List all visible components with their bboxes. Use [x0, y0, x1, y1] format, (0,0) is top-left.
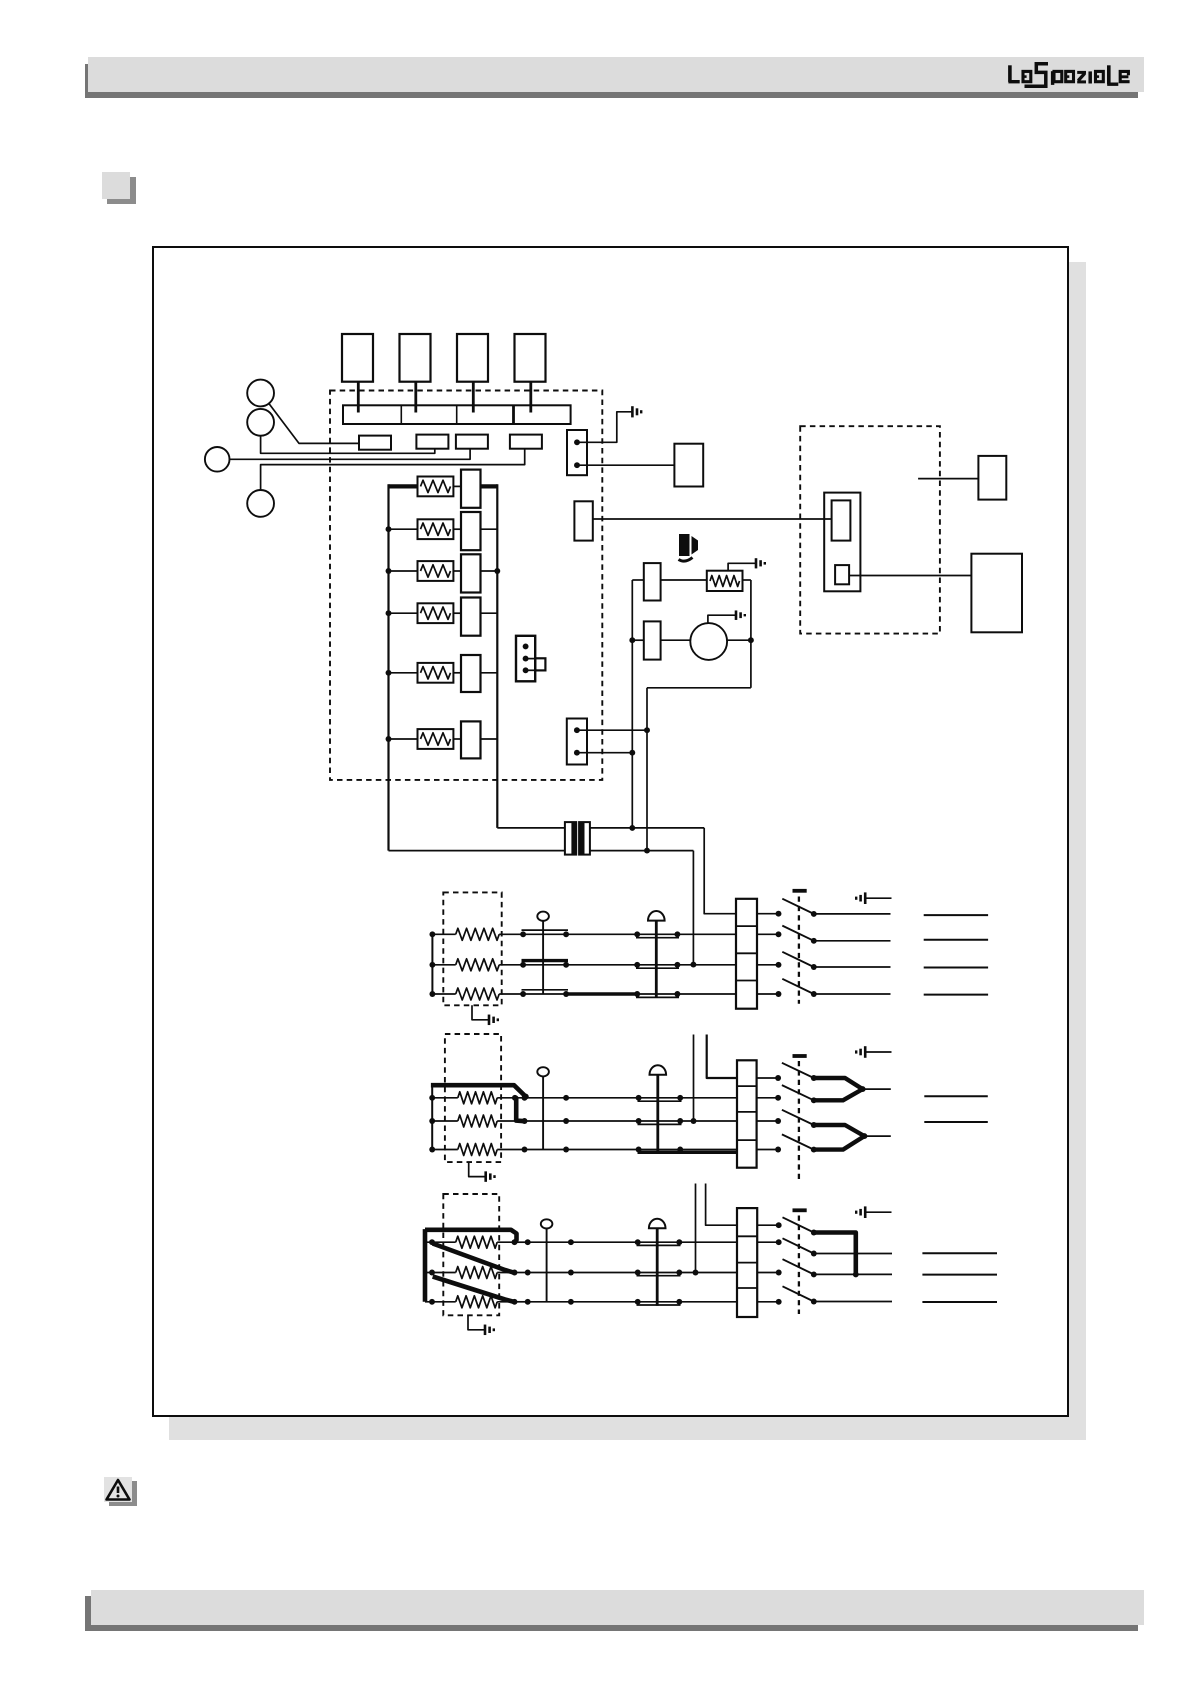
wire PB2 to J2 — [261, 436, 435, 454]
mechanical link 3 (dashed) — [798, 1216, 800, 1315]
wire row 2.1 — [525, 1097, 738, 1099]
wire PB3 to J3 — [230, 449, 471, 459]
heating element 1.1 — [432, 928, 523, 940]
connector node 2.3.1 — [522, 1147, 528, 1153]
wire row 2.2 — [525, 1120, 738, 1122]
chassis ground 1 — [856, 892, 891, 904]
connector node 3.3.2 — [525, 1299, 531, 1305]
wire SW4 stem — [529, 382, 532, 413]
bank bus node 5 — [386, 670, 392, 676]
wire row 2.3 — [525, 1149, 738, 1151]
switch output node 3.2 — [811, 1271, 817, 1277]
contactor terminal strip 2 — [737, 1060, 757, 1167]
switch input node 1.2 — [776, 962, 782, 968]
merge wires 2.1 (thick) — [814, 1078, 863, 1100]
transformer T1 — [565, 822, 590, 855]
wire left rail — [631, 580, 633, 828]
switch blade 3.1 — [783, 1238, 814, 1253]
node N1 — [629, 637, 635, 643]
safety thermostat B1 — [648, 911, 665, 998]
box TR — [978, 456, 1006, 500]
connector node 2.1.4 — [677, 1095, 683, 1101]
switch output node 2.1 — [811, 1097, 817, 1103]
heating element 1.2 — [432, 959, 523, 971]
bank 2 jumper (thick) — [431, 1085, 526, 1096]
CN2 pin 2 — [574, 750, 580, 756]
wire R2 to RL2 — [453, 528, 461, 530]
switch input node 2.0 — [775, 1075, 781, 1081]
link bar 3 — [793, 1208, 807, 1212]
wire node to RL7 — [632, 579, 644, 581]
connector node 1.3.3 — [634, 991, 640, 997]
CN3 shorting link — [526, 658, 546, 670]
connector node 3.2.1 — [512, 1270, 518, 1276]
box P1 — [574, 501, 592, 540]
heating element 2.2 — [432, 1115, 524, 1127]
connector node 3.1.3 — [568, 1239, 574, 1245]
load wire 1.4 — [924, 994, 988, 996]
bank 3 bus node 1 — [429, 1239, 435, 1245]
push-button PB3 — [205, 447, 230, 472]
bank 2 bus node 1 — [429, 1095, 435, 1101]
connector node 2.3.4 — [677, 1147, 683, 1153]
connector node 2.1.2 — [563, 1095, 569, 1101]
link bar 1 — [793, 889, 807, 893]
strip out wire 2.2 — [757, 1120, 779, 1122]
right bank bus — [496, 484, 498, 828]
switch out wire 1.3 — [814, 993, 891, 995]
merge node 2.1 — [860, 1086, 866, 1092]
wire CN2-1 — [578, 729, 647, 731]
wire PB1 to J1 — [269, 404, 359, 444]
switch input node 3.0 — [776, 1222, 782, 1228]
connector node 1.3.1 — [520, 991, 526, 997]
load wire 2.1 — [924, 1095, 988, 1097]
wire P1 to contactor coil — [593, 518, 832, 520]
heater bank 1 bus — [431, 934, 433, 994]
strip out wire 3.3 — [757, 1301, 779, 1303]
wire RL8 to motor — [661, 639, 691, 641]
node N4 — [748, 637, 754, 643]
switch blade 2.1 — [782, 1085, 814, 1100]
wire feed L2 group1 — [692, 851, 694, 965]
wire row 1.2 — [523, 964, 736, 966]
switch output node 2.3 — [811, 1147, 817, 1153]
wire RL7 to R7 — [661, 579, 707, 581]
bridge link 3.3 — [637, 1304, 681, 1306]
row A link (thick) 3 — [814, 1233, 856, 1275]
wire bus to R3 — [389, 570, 418, 572]
connector node 3.3.5 — [676, 1299, 682, 1305]
relay coil RL8 — [644, 621, 661, 659]
wire RL3 to right bus — [481, 570, 498, 572]
connector node 1.1.2 — [563, 931, 569, 937]
contactor terminal strip 3 — [737, 1208, 757, 1317]
wire row 3.3 — [515, 1301, 738, 1303]
switch output node 2.0 — [811, 1075, 817, 1081]
wire row 1.3 — [523, 993, 736, 995]
wire row 1.1 — [523, 933, 736, 935]
mechanical link 2 (dashed) — [798, 1061, 800, 1180]
switch blade 3.2 — [783, 1259, 814, 1274]
load wire 1.3 — [924, 967, 988, 969]
connector node 1.2.4 — [674, 962, 680, 968]
bank 2 link R1-R2 (thick) — [515, 1098, 525, 1121]
switch input node 1.3 — [776, 991, 782, 997]
wire row 3.1 — [515, 1241, 738, 1243]
strip out wire 2.3 — [757, 1149, 779, 1151]
bank bus node 2 — [386, 526, 392, 532]
switch out wire 3.3 — [814, 1301, 892, 1303]
connector node 3.1.1 — [512, 1239, 518, 1245]
connector node 3.2.3 — [568, 1270, 574, 1276]
header bar shadow — [85, 64, 1139, 98]
connector node 2.3.2 — [563, 1147, 569, 1153]
bank 2 jumper node b — [512, 1095, 518, 1101]
footer bar shadow — [85, 1596, 1139, 1631]
chassis ground 3 — [856, 1206, 891, 1218]
wire right rail — [750, 580, 752, 688]
bank 1 bus node 2 — [429, 962, 435, 968]
bank bus node 3 — [386, 568, 392, 574]
switch output node 1.0 — [811, 911, 817, 917]
resistor R3 — [418, 561, 454, 581]
CN1 pin 1 — [574, 439, 580, 445]
switch blade 2.3 — [782, 1134, 814, 1149]
wire RL6 to right bus — [481, 738, 498, 740]
heater bank 3 enclosure (dashed) — [443, 1194, 499, 1315]
load wire 3.1 — [922, 1252, 997, 1254]
feed wire L1 bank 2 — [707, 1035, 737, 1079]
resistor R1 — [418, 477, 454, 497]
bridge link 1.2b — [636, 967, 679, 969]
wire R7 to right rail — [743, 579, 751, 581]
push-button PB4 — [247, 490, 274, 517]
switch out wire 1.1 — [814, 940, 891, 942]
load wire 1.1 — [924, 914, 988, 916]
schematic frame shadow — [169, 262, 1086, 1440]
wire T1 top out — [590, 827, 704, 829]
wire RL5 to right bus — [481, 672, 498, 674]
wire T1 bottom out — [590, 850, 694, 852]
board connector J1 — [359, 436, 391, 450]
switch output node 1.2 — [811, 964, 817, 970]
load wire 3.3 — [922, 1301, 997, 1303]
heater bank 3 bus (thick) — [423, 1229, 428, 1302]
wire CN2-2 — [578, 752, 632, 754]
bank 1 bus node 3 — [429, 991, 435, 997]
wire contactor coil b to box M2 — [849, 575, 971, 577]
bank 3 bus node 3 — [429, 1299, 435, 1305]
switch input node 1.0 — [776, 911, 782, 917]
enclosure ground 1 — [472, 1005, 498, 1025]
connector node 2.3.3 — [636, 1147, 642, 1153]
feed node group1 — [690, 962, 696, 968]
control board A1 (dashed) — [330, 391, 602, 780]
bank 2 jumper node a — [523, 1094, 529, 1100]
strip out wire 3.2 — [757, 1272, 779, 1274]
feed node bank 2 — [691, 1118, 697, 1124]
heater bank 2 enclosure (dashed) — [445, 1034, 501, 1162]
switch blade 1.0 — [782, 899, 814, 914]
connector node 2.2.2 — [563, 1118, 569, 1124]
bank 2 bus node 3 — [429, 1147, 435, 1153]
buzzer BZ — [679, 534, 699, 561]
wire contactor to TR box — [918, 478, 978, 480]
connector CN3 — [516, 636, 535, 682]
board connector J4 — [510, 435, 542, 449]
bank 3 jumper top (thick) — [425, 1230, 517, 1242]
wire R7 to ground — [728, 563, 755, 570]
wire CN1-1 to ground — [578, 412, 632, 443]
connector node 1.1.1 — [520, 931, 526, 937]
warning icon — [109, 1481, 137, 1506]
contactor coil b — [835, 565, 849, 584]
left bank bus — [387, 484, 389, 850]
bank 3 cross link 2 (thick) — [433, 1277, 515, 1303]
bank bus node 6 — [386, 736, 392, 742]
wire bus to R6 — [389, 738, 418, 740]
resistor R2 — [418, 519, 454, 539]
wire R6 to RL6 — [453, 738, 461, 740]
switch input node 3.3 — [776, 1299, 782, 1305]
connector node 3.2.4 — [635, 1270, 641, 1276]
CN3 pin 1 — [523, 643, 529, 649]
switch input node 1.1 — [776, 931, 782, 937]
switch blade 1.3 — [782, 979, 814, 994]
relay RL2 — [461, 512, 481, 550]
wire right bus to T1 — [497, 827, 565, 829]
ground G2 — [756, 558, 765, 568]
signal lamp H1 — [537, 912, 549, 994]
connector node 1.2.2 — [563, 962, 569, 968]
push-button PB2 — [247, 409, 274, 436]
La Spaziale logo — [1004, 58, 1134, 90]
board connector J3 — [456, 435, 488, 449]
strip out wire 1.2 — [757, 964, 779, 966]
connector node 3.3.3 — [568, 1299, 574, 1305]
switch blade 3.3 — [783, 1286, 814, 1301]
footer bar — [91, 1590, 1145, 1625]
contactor box (dashed) — [800, 426, 940, 633]
switch output node 3.1 — [811, 1251, 817, 1257]
bridge link 2.2 — [638, 1123, 682, 1125]
wire row 3.2 — [515, 1272, 738, 1274]
box M2 — [971, 554, 1022, 633]
relay RL1 — [461, 470, 481, 508]
wire R5 to RL5 — [453, 672, 461, 674]
switch out wire 3.2 — [814, 1273, 892, 1275]
bank 2 bus node 2 — [429, 1118, 435, 1124]
strip out wire 1.1 — [757, 933, 779, 935]
panel switch SW4 — [515, 334, 546, 382]
connector node 2.2.1 — [522, 1118, 528, 1124]
enclosure ground 2 — [469, 1162, 495, 1182]
ground G1 — [632, 406, 641, 417]
wire SW3 stem — [472, 382, 475, 413]
connector node 1.1.3 — [634, 931, 640, 937]
load wire 2.2 — [924, 1121, 988, 1123]
connector node 3.1.5 — [676, 1239, 682, 1245]
connector node 2.2.3 — [636, 1118, 642, 1124]
feed node bank 3 — [693, 1270, 699, 1276]
wire feed L1 group1 — [704, 828, 736, 914]
heating element 3.1 — [425, 1236, 515, 1248]
connector node 1.2.3 — [634, 962, 640, 968]
link node 3 — [853, 1271, 859, 1277]
wire bus to R4 — [389, 612, 418, 614]
switch out wire 3.1 — [814, 1253, 892, 1255]
mechanical link 1 (dashed) — [798, 897, 800, 1004]
wire PB4 to J4 — [261, 449, 525, 490]
schematic frame — [152, 246, 1069, 1417]
feed wire L1 bank 3 — [706, 1184, 737, 1226]
load wire 3.2 — [922, 1274, 997, 1276]
strip out wire 1.3 — [757, 993, 779, 995]
merge node 2.2 — [861, 1133, 867, 1139]
heating element 3.2 — [425, 1267, 515, 1279]
wire R4 to RL4 — [453, 612, 461, 614]
switch output node 3.3 — [811, 1299, 817, 1305]
bank 1 bus node 1 — [429, 931, 435, 937]
node N6 — [644, 848, 650, 854]
connector node 2.1.3 — [636, 1095, 642, 1101]
bridge link 1.1b — [636, 937, 679, 939]
wire R3 to RL3 — [453, 570, 461, 572]
switch blade 1.1 — [782, 926, 814, 941]
wire bus to R1 — [389, 484, 418, 488]
signal lamp H3 — [541, 1219, 553, 1302]
enclosure ground 3 — [468, 1315, 494, 1335]
pump motor M1 — [690, 623, 727, 660]
heating element 3.3 — [425, 1296, 515, 1308]
switch blade 3.0 — [783, 1217, 814, 1232]
bridge link 1.3b — [636, 996, 679, 998]
chassis ground 2 — [856, 1046, 891, 1058]
bridge link 1.1a — [522, 929, 569, 931]
panel switch SW2 — [400, 334, 431, 382]
connector CN1 — [567, 430, 587, 475]
node N3 — [629, 825, 635, 831]
strip out wire 3.1 — [757, 1241, 779, 1243]
bank bus node 4 — [386, 610, 392, 616]
wire RL4 to right bus — [481, 612, 498, 614]
wire bus to R5 — [389, 672, 418, 674]
switch input node 2.1 — [775, 1095, 781, 1101]
relay RL5 — [461, 655, 481, 692]
safety thermostat B2 — [650, 1065, 667, 1153]
wire bus to R2 — [389, 528, 418, 530]
wire R1 to RL1 — [453, 485, 461, 487]
resistor R4 — [418, 603, 454, 623]
CN3 pin 2 — [523, 656, 529, 662]
contactor coil a — [832, 500, 851, 540]
bank 3 cross link 1 (thick) — [433, 1244, 515, 1273]
safety thermostat B3 — [649, 1219, 666, 1306]
resistor R6 — [418, 729, 454, 749]
connector node 1.2.1 — [520, 962, 526, 968]
ground G3 — [736, 610, 745, 620]
wire mid rail — [646, 688, 648, 851]
strip out wire 3.0 — [757, 1224, 779, 1226]
connector node 3.2.2 — [525, 1270, 531, 1276]
switch out wire 1.0 — [814, 913, 891, 915]
switch blade 2.2 — [782, 1110, 814, 1125]
connector CN2 — [567, 719, 587, 765]
relay RL4 — [461, 598, 481, 636]
board connector J2 — [416, 435, 448, 449]
strip out wire 1.0 — [757, 913, 779, 915]
connector node 3.1.2 — [525, 1239, 531, 1245]
connector node 3.2.5 — [676, 1270, 682, 1276]
switch input node 2.3 — [775, 1147, 781, 1153]
strip out wire 2.1 — [757, 1097, 779, 1099]
heating element 2.1 — [432, 1092, 524, 1104]
wire left bus to T1 — [389, 850, 565, 852]
bridge link 1.3a — [522, 989, 569, 991]
switch input node 3.2 — [776, 1270, 782, 1276]
header bar — [88, 57, 1144, 92]
switch output node 2.2 — [811, 1122, 817, 1128]
push-button PB1 — [247, 380, 274, 407]
wire N1 to RL8 — [632, 639, 644, 641]
connector node 1.3.4 — [674, 991, 680, 997]
connector node 2.2.4 — [677, 1118, 683, 1124]
wire RL1 to right bus — [481, 484, 498, 488]
contactor terminal strip 1 — [736, 899, 757, 1009]
wire bottom rail — [647, 687, 751, 689]
wire CN1-2 to K1 — [578, 464, 674, 466]
merge wires 2.2 (thick) — [814, 1125, 865, 1150]
switch input node 3.1 — [776, 1239, 782, 1245]
CN2 pin 1 — [574, 727, 580, 733]
CN1 pin 2 — [574, 462, 580, 468]
switch blade 1.2 — [782, 952, 814, 967]
feed wire L2 bank 3 — [695, 1184, 697, 1273]
node N2 — [629, 750, 635, 756]
heater bank 2 bus — [431, 1085, 433, 1149]
bridge link 3.1 — [637, 1244, 681, 1246]
wire motor to right rail — [727, 639, 751, 641]
panel switch SW1 — [342, 334, 373, 382]
feed wire L2 bank 2 — [693, 1035, 695, 1122]
bridge link 1.2a — [522, 959, 569, 962]
strip out wire 2.0 — [757, 1077, 779, 1079]
heating element 2.3 — [432, 1144, 524, 1156]
connector node 1.3.2 — [563, 991, 569, 997]
connector node 3.3.1 — [512, 1299, 518, 1305]
resistor R7 — [707, 571, 743, 591]
merge out wire 2.1 — [863, 1088, 891, 1090]
connector node 2.1.1 — [522, 1095, 528, 1101]
relay RL3 — [461, 554, 481, 592]
switch blade 2.0 — [782, 1063, 814, 1078]
switch out wire 1.2 — [814, 966, 891, 968]
connector node 1.1.4 — [674, 931, 680, 937]
merge out wire 2.2 — [864, 1135, 890, 1137]
resistor R5 — [418, 663, 454, 683]
switch output node 1.1 — [811, 938, 817, 944]
load wire 1.2 — [924, 939, 988, 941]
link bar 2 — [793, 1054, 807, 1058]
signal lamp H2 — [537, 1067, 549, 1149]
node N5 — [644, 727, 650, 733]
contactor C1 body — [824, 493, 860, 592]
wire SW2 stem — [414, 382, 417, 413]
bridge link 3.2 — [637, 1275, 681, 1277]
wire RL2 to right bus — [481, 528, 498, 530]
switch input node 2.2 — [775, 1118, 781, 1124]
